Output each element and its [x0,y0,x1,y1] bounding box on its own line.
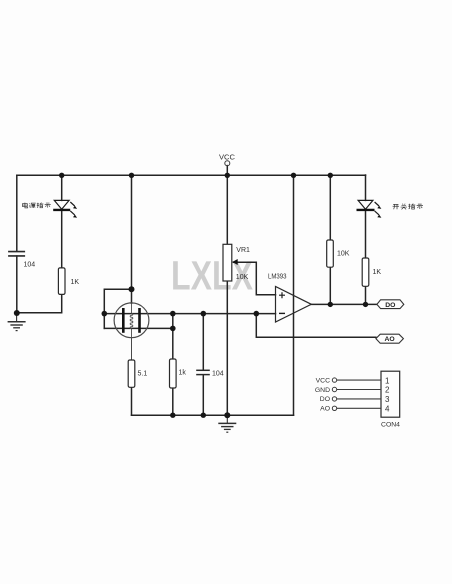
junction rail-sensor [129,173,134,178]
wire left LED cathode to 1K [61,210,63,268]
junction DO line-1K [363,302,368,307]
wire cap2 column top [202,314,204,370]
junction sensor right pin upper [170,311,176,317]
wire sensor left link [104,289,131,328]
resistor R2 10K right [327,240,350,267]
junction minus line-AO branch [253,311,259,317]
junction rail-D1 [59,173,64,178]
wire sensor top column [131,175,133,303]
wire top rail VCC [17,174,366,176]
capacitor C2 104 [196,370,224,377]
wire VR1 bottom to bottom rail [226,281,228,415]
svg-text:DO: DO [320,396,330,403]
potentiometer VR1 10K [223,244,250,281]
wire right 1K bottom to DO line [365,286,367,304]
svg-text:VR1: VR1 [236,247,250,254]
junction DO line-10K [328,302,333,307]
junction rail-10K [328,173,333,178]
junction sensor right pin lower [170,326,176,332]
junction rail-supply column [291,173,296,178]
wire mid supply column through comparator [293,175,295,415]
svg-text:VCC: VCC [219,153,236,162]
LED D1 power indicator [53,200,77,217]
wire 1k bottom [172,388,174,415]
wire AO branch [256,314,376,338]
ground GND middle [218,415,236,432]
junction ground node left [14,310,20,316]
resistor R4 1k [170,359,187,388]
svg-text:1: 1 [385,376,390,385]
sensor MQ tube [114,303,149,360]
wire left column bottom [16,256,18,313]
svg-text:10K: 10K [236,274,249,281]
wire right LED cathode to 1K [365,210,367,258]
wire right LED anode [365,175,367,200]
junction bottom rail-C2 [201,413,206,418]
wire bottom rail [132,414,294,416]
wire sensor upper pin line to comparator minus [104,313,275,315]
wire VR1 wiper to comparator plus [234,262,276,295]
connector CON4 [381,371,400,428]
wire left column top [16,175,18,251]
svg-text:GND: GND [315,387,330,394]
svg-text:104: 104 [24,262,36,269]
connector pin wire VCC [316,377,381,384]
wire 5.1 bottom to bottom rail [131,387,133,415]
connector pin wire AO [320,406,381,413]
svg-text:VCC: VCC [316,377,330,384]
op-amp U1 LM393 [268,272,311,323]
wire heater bottom to 5.1 [131,338,133,360]
junction bottom rail-ground [224,412,230,418]
power symbol VCC [219,153,236,166]
junction bottom rail-1k [170,413,175,418]
svg-text:10K: 10K [337,251,350,258]
wire left 1K bottom to ground node [17,294,62,312]
svg-text:2: 2 [385,386,390,395]
svg-text:DO: DO [385,302,395,309]
wire right electrode column to 1k [172,314,174,359]
connector pin wire DO [320,396,381,403]
wire VCC stub [226,166,228,175]
svg-text:AO: AO [384,336,394,343]
wire 10K column top [329,175,331,240]
port flag AO [376,334,404,343]
svg-text:1k: 1k [179,369,187,376]
svg-text:1K: 1K [71,279,80,286]
svg-text:LM393: LM393 [268,272,287,281]
resistor R1 1K left [58,268,79,295]
svg-text:104: 104 [212,370,224,377]
wire sensor lower pin line [104,327,173,329]
wire comparator output DO line [311,303,377,305]
port flag DO [377,300,404,309]
svg-text:5.1: 5.1 [138,371,148,378]
junction sensor left pin [102,311,108,317]
label switch indicator CJK 开关指示 [393,204,423,210]
svg-text:4: 4 [385,405,390,414]
svg-text:AO: AO [320,406,330,413]
wire 10K bottom to DO line [329,267,331,304]
svg-text:CON4: CON4 [381,421,400,428]
wire left LED anode [61,175,63,200]
wire cap2 bottom [202,375,204,415]
wire VCC to VR1 [226,175,228,244]
LED D2 switch indicator [357,200,382,217]
junction sensor top [129,286,135,292]
svg-text:1K: 1K [373,269,382,276]
resistor R5 5.1 [128,360,147,387]
junction minus line-C2 [201,311,207,317]
ground GND left [8,313,26,331]
resistor R3 1K right [362,258,381,286]
junction rail-VCC [225,173,230,178]
capacitor C1 104 [8,252,35,269]
label power indicator CJK 电源指示 [22,203,50,208]
svg-text:3: 3 [385,395,390,404]
connector pin wire GND [315,387,381,394]
